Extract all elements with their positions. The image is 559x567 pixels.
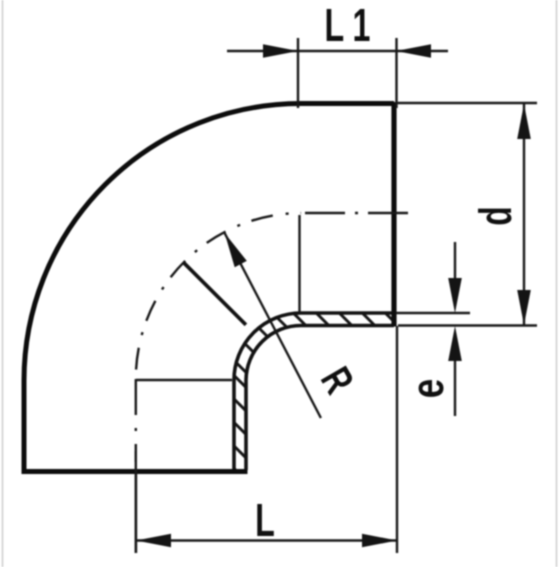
d extension line top	[396, 102, 537, 104]
e upper leader	[454, 242, 456, 300]
tangent marker, horizontal leg	[298, 215, 300, 312]
d arrow top	[517, 104, 531, 139]
e lower leader	[454, 345, 456, 416]
tangent marker, vertical leg	[136, 379, 232, 381]
centerline horizontal segment (dash-dot)	[301, 212, 408, 214]
L1 arrow left	[263, 44, 298, 58]
L1 extension line left	[297, 38, 299, 108]
svg-text:d: d	[472, 206, 522, 225]
L1 dimension line	[227, 50, 448, 52]
elbow bore (inner wall) line	[234, 313, 394, 470]
L dimension line	[136, 539, 397, 541]
elbow wall section hatching	[234, 314, 394, 472]
svg-text:L: L	[255, 495, 275, 546]
L arrow right	[362, 534, 397, 548]
L extension line right	[396, 326, 398, 553]
centerline solid extension to L dimension	[135, 451, 137, 553]
centerline vertical leg (dash-dot)	[135, 379, 137, 462]
pipe end face (right spigot)	[391, 102, 396, 327]
L1 arrow right	[396, 44, 431, 58]
d dimension line	[523, 104, 525, 325]
svg-text:e: e	[401, 379, 452, 399]
d arrow bottom	[517, 290, 531, 325]
faint right page border	[556, 0, 558, 567]
e lower arrow (up)	[448, 326, 462, 361]
centerline arc (dash-dot)	[136, 213, 301, 379]
R leader arrowhead	[225, 233, 247, 267]
svg-text:L 1: L 1	[325, 0, 371, 51]
elbow outer contour	[24, 104, 394, 472]
R leader line	[225, 233, 321, 418]
L arrow left	[136, 534, 171, 548]
radius line R (thick, 45 deg)	[184, 263, 246, 325]
L extension line left	[135, 471, 137, 553]
L1 extension line right	[395, 38, 397, 108]
e extension line (bore)	[396, 312, 470, 314]
e upper arrow (down)	[448, 278, 462, 313]
d extension line bottom	[398, 324, 537, 326]
elbow intrados outer line	[246, 326, 394, 471]
faint left page border	[2, 0, 4, 567]
